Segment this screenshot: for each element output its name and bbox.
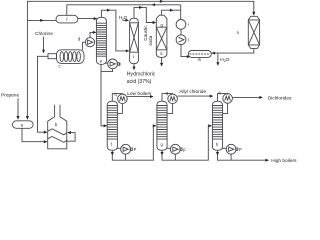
condenser q2 coil [170, 97, 176, 102]
svg-text:n: n [237, 30, 240, 35]
arrow H2O drain [216, 62, 219, 66]
arrow g overhead [170, 9, 174, 12]
condenser q2 [168, 94, 178, 104]
arrow loop into b [67, 131, 71, 134]
svg-text:Hydrochloric: Hydrochloric [127, 72, 156, 78]
column h2 trays [212, 106, 222, 140]
svg-text:P: P [134, 147, 137, 152]
column n shell [248, 16, 259, 48]
svg-text:d: d [78, 37, 81, 42]
svg-text:p: p [119, 62, 122, 67]
arrow gas into h bottom [126, 49, 130, 52]
wire h2 pump stub [222, 147, 226, 149]
wire f riser to compressor line [67, 5, 181, 16]
arrow low boilers [150, 95, 154, 98]
arrow into column n top [252, 12, 255, 16]
column e shell [96, 17, 106, 64]
compressor l vane [179, 37, 184, 42]
svg-text:a: a [21, 123, 24, 128]
wire propene feed [17, 98, 19, 119]
pump P1 outlet stub [130, 148, 132, 150]
wire into drum f [27, 19, 55, 21]
arrow feed into h2 [208, 124, 212, 127]
arrow feed into first column [104, 124, 108, 127]
svg-text:Allyl chloride: Allyl chloride [179, 89, 206, 95]
arrow f into e [94, 17, 98, 20]
arrow g2 bottoms down [160, 152, 163, 156]
pump P3 outlet stub [236, 148, 238, 150]
arrow into f [40, 19, 44, 22]
tower g packing [156, 27, 167, 50]
reactor c coil [60, 52, 80, 62]
wire low boilers product [127, 96, 153, 98]
wire e bottoms to column f2 [101, 64, 107, 125]
wire recycle top line [27, 1, 253, 119]
arrow chlorine down [42, 50, 45, 54]
wire a to reactor b [22, 128, 47, 141]
svg-text:e: e [100, 59, 103, 64]
arrow recycle into mixer a [26, 116, 29, 120]
reactor c vessel [57, 50, 85, 64]
absorber h packing [130, 23, 139, 52]
arrow H2O into h [125, 19, 129, 22]
condenser q3 [223, 94, 233, 104]
drum f [56, 15, 78, 23]
column f2 trays [107, 106, 117, 140]
pump P1 triangle [123, 147, 128, 151]
wire h acid drain [133, 64, 135, 70]
svg-text:i: i [133, 54, 134, 59]
svg-text:l: l [188, 37, 189, 42]
wire P1 leg [125, 154, 127, 160]
reactor c nozzle [48, 54, 57, 59]
arrow f2 bottoms down [111, 152, 114, 156]
wire g2 overhead [162, 94, 173, 102]
wire g2 bottoms to h2 [162, 126, 211, 160]
arrow into tower g [153, 21, 157, 24]
svg-text:c: c [59, 64, 61, 69]
pump P1 [121, 144, 131, 154]
mixer a [13, 121, 34, 129]
column f2 shell [107, 101, 117, 150]
svg-text:f: f [111, 142, 113, 147]
reactor b chevron 1 [48, 129, 67, 135]
wire H2O drain [217, 53, 219, 65]
blower d triangle [88, 40, 93, 44]
wire e pump stub [105, 62, 108, 64]
wire e pump discharge [101, 69, 113, 72]
svg-text:k: k [161, 51, 164, 56]
wire dichlorides product [232, 96, 262, 98]
decanter m [188, 51, 211, 58]
wire H2O into h [123, 19, 129, 21]
wire f outlet to e [78, 18, 98, 20]
pump p2 outlet stub [180, 148, 182, 150]
reactor b chevron 2 [48, 137, 67, 143]
svg-text:Chlorine: Chlorine [35, 31, 53, 37]
arrow propene into a [16, 116, 19, 120]
arrow recycle right [160, 0, 164, 3]
wire d to column e [90, 32, 96, 37]
wire q3 reflux [223, 103, 228, 113]
svg-text:q: q [218, 90, 221, 95]
compressor l [176, 35, 186, 45]
svg-text:Propene: Propene [1, 93, 19, 99]
arrow into m right [212, 52, 216, 55]
column e trays [96, 23, 106, 56]
wire f2 overhead [112, 94, 122, 102]
wire g drain [161, 57, 163, 65]
absorber h shell [130, 18, 139, 64]
wire q1 reflux [117, 104, 122, 114]
wire c-nozzle junction down to b [38, 56, 49, 132]
arrow h overhead [139, 6, 143, 9]
arrow high boilers [265, 159, 269, 162]
arrow dichlorides [259, 96, 263, 99]
blower d [85, 38, 94, 47]
compressor i [176, 20, 186, 30]
caustic tower g shell [156, 15, 167, 57]
svg-text:b: b [55, 122, 58, 127]
column h2 shell [212, 101, 222, 150]
wire i to l [180, 29, 182, 35]
pump P3 triangle [229, 147, 234, 151]
svg-text:acid (37%): acid (37%) [127, 79, 152, 85]
wire h2 bottoms high boilers [218, 150, 269, 160]
pump p at e [108, 59, 118, 69]
wire h2 overhead [218, 94, 228, 102]
arrow into m left [187, 55, 191, 58]
svg-text:Dichlorides: Dichlorides [268, 96, 292, 102]
pump p2 triangle [173, 147, 178, 151]
pump p outlet stub [117, 63, 119, 65]
wire h overhead to tower g [134, 7, 156, 22]
condenser q1 [118, 94, 128, 104]
wire g overhead riser [162, 10, 181, 15]
condenser q3 coil [225, 96, 231, 101]
pump p triangle [110, 62, 115, 66]
arrow acid out [132, 67, 135, 71]
condenser q1 coil [120, 97, 126, 102]
wire e overhead to absorber h [101, 10, 128, 51]
wire f2 pump stub [117, 147, 121, 149]
arrow g drain [160, 63, 163, 67]
svg-text:Low boilers: Low boilers [127, 91, 152, 97]
wire c to blower d [82, 42, 85, 50]
svg-text:H2O: H2O [220, 57, 229, 63]
svg-text:q: q [166, 90, 169, 95]
wire p2 leg [174, 154, 176, 160]
svg-text:g: g [161, 142, 164, 147]
wire g2 pump stub [167, 147, 171, 149]
wire n bottoms to m [211, 49, 254, 53]
wire compressor drop [180, 5, 182, 20]
arrow allyl chloride [210, 95, 214, 98]
pump p2 [170, 144, 180, 154]
arrow feed into g2 [153, 124, 157, 127]
arrow toward f [152, 3, 156, 6]
wire P3 leg [230, 154, 232, 160]
svg-text:P: P [239, 147, 242, 152]
svg-text:p: p [183, 147, 186, 152]
wire allyl chloride product [177, 95, 212, 97]
wire b external loop [67, 133, 75, 142]
svg-text:High boilers: High boilers [271, 158, 297, 164]
reactor b [48, 105, 67, 149]
column g2 shell [157, 101, 167, 150]
svg-text:m: m [198, 57, 202, 62]
decanter m interface [190, 53, 210, 55]
wire l to decanter m [181, 45, 190, 57]
svg-text:i: i [188, 22, 189, 27]
svg-text:h: h [216, 142, 219, 147]
wire f2 bottoms to g2 [112, 126, 155, 160]
column g2 trays [157, 106, 167, 140]
wire chlorine feed [43, 37, 45, 53]
svg-text:f: f [66, 17, 68, 22]
arrow h2 bottoms down [216, 152, 219, 156]
svg-text:soda: soda [148, 35, 153, 45]
arrow into b upper [44, 131, 48, 134]
column n packing [248, 20, 259, 45]
arrow into b lower [44, 140, 48, 143]
arrow e overhead [107, 9, 111, 12]
wire q2 reflux [167, 104, 173, 114]
arrow d feed into e [93, 31, 97, 34]
pump P3 [226, 144, 236, 154]
